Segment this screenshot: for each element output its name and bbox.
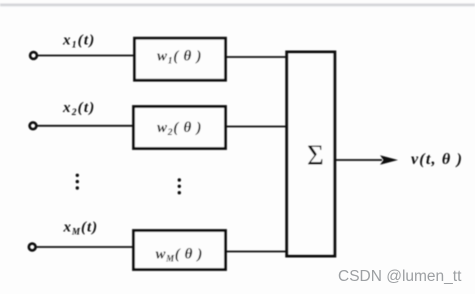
svg-text:wM( θ ): wM( θ ) [156,247,204,264]
svg-text:v(t, θ ): v(t, θ ) [411,151,463,168]
svg-text:w1( θ ): w1( θ ) [157,49,202,67]
svg-text:CSDN @lumen_tt: CSDN @lumen_tt [338,268,462,285]
svg-text:Σ: Σ [307,140,324,172]
svg-text:w2( θ ): w2( θ ) [157,120,202,138]
svg-text:x2(t): x2(t) [62,100,95,118]
svg-text:xM(t): xM(t) [63,219,99,236]
svg-text:x1(t): x1(t) [62,32,95,50]
